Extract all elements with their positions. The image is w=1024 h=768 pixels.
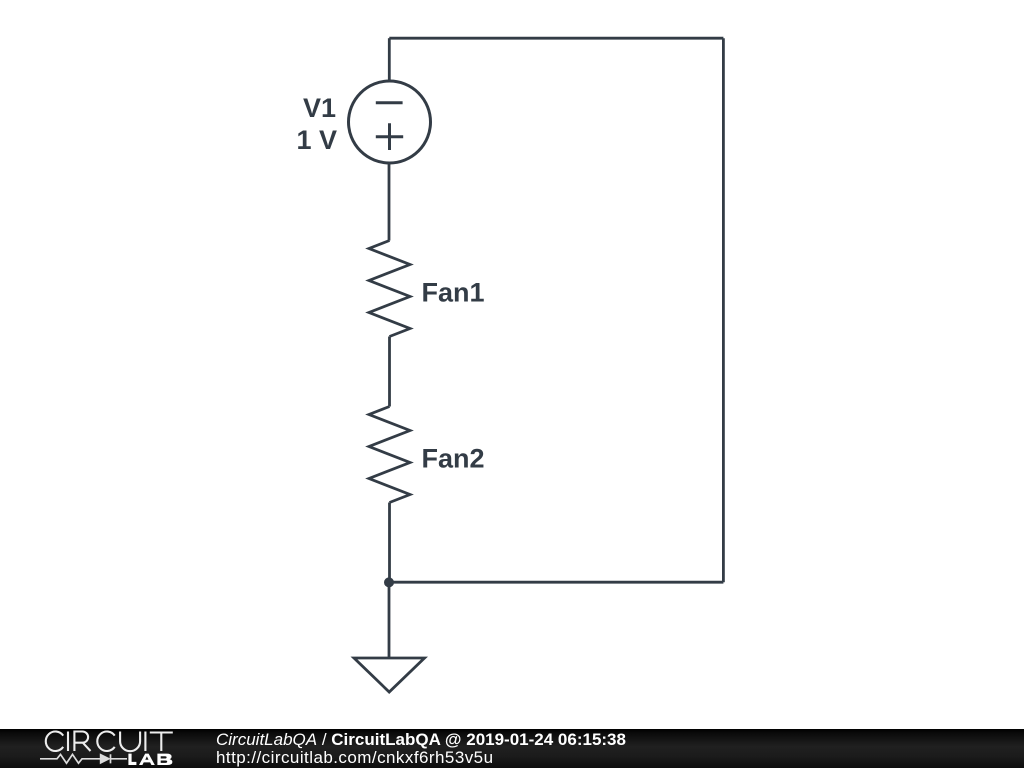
logo letter R	[74, 732, 90, 752]
wire junction to ground	[388, 582, 391, 658]
ground symbol triangle	[354, 658, 425, 692]
voltage source V1 plus sign	[376, 123, 403, 150]
logo letter T	[150, 733, 173, 752]
logo letter C2	[97, 732, 114, 752]
wire R1 to R2	[388, 337, 391, 407]
logo letter C1	[46, 732, 63, 752]
logo text LAB	[128, 754, 172, 765]
wire bottom horizontal	[389, 581, 723, 584]
logo letter I1	[67, 732, 69, 752]
svg-text:1 V: 1 V	[296, 125, 337, 155]
logo resistor-diode doodle	[40, 754, 127, 763]
wire V1 top lead	[388, 38, 391, 81]
wire V1 bottom to R1	[388, 163, 391, 241]
footer bar	[0, 729, 1024, 768]
logo letter U	[120, 732, 140, 752]
svg-text:Fan2: Fan2	[422, 444, 485, 474]
CircuitLab logo	[0, 729, 200, 768]
footer url line 2	[216, 749, 493, 766]
footer attribution line 1	[216, 731, 626, 748]
wire R2 to junction	[388, 503, 391, 583]
node junction dot	[384, 577, 394, 587]
logo letter I2	[144, 732, 146, 752]
svg-text:V1: V1	[303, 93, 336, 123]
wire right vertical	[722, 38, 725, 582]
voltage source V1 minus sign	[376, 101, 403, 104]
wire top horizontal	[389, 37, 723, 40]
voltage source V1 circle	[349, 81, 431, 163]
svg-text:Fan1: Fan1	[422, 278, 485, 308]
resistor R1 zigzag	[369, 241, 410, 337]
resistor R2 zigzag	[369, 407, 410, 503]
